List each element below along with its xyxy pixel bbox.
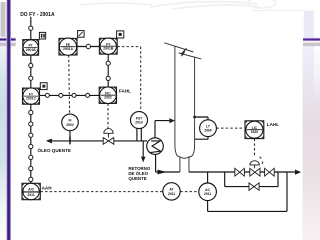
svg-text:QUENTE: QUENTE bbox=[128, 176, 146, 181]
svg-text:ÓLEO QUENTE: ÓLEO QUENTE bbox=[38, 146, 71, 153]
svg-text:AIC: AIC bbox=[28, 188, 34, 192]
svg-text:2920: 2920 bbox=[251, 130, 259, 134]
svg-text:LAHL: LAHL bbox=[267, 122, 279, 127]
svg-text:2901A: 2901A bbox=[63, 47, 74, 51]
svg-text:2901B: 2901B bbox=[26, 48, 37, 52]
svg-text:2901B: 2901B bbox=[103, 47, 114, 51]
svg-text:2911: 2911 bbox=[204, 192, 211, 196]
svg-text:2910: 2910 bbox=[135, 121, 143, 125]
svg-text:AAH: AAH bbox=[42, 185, 53, 190]
svg-text:2960: 2960 bbox=[204, 129, 212, 133]
svg-text:2911: 2911 bbox=[168, 192, 175, 196]
svg-text:2901C: 2901C bbox=[26, 97, 37, 101]
svg-text:2911: 2911 bbox=[27, 193, 34, 197]
svg-text:2902: 2902 bbox=[66, 123, 74, 127]
svg-text:2902: 2902 bbox=[104, 96, 112, 100]
svg-text:DO FY - 2901A: DO FY - 2901A bbox=[20, 12, 55, 18]
svg-text:FAHL: FAHL bbox=[119, 88, 131, 93]
